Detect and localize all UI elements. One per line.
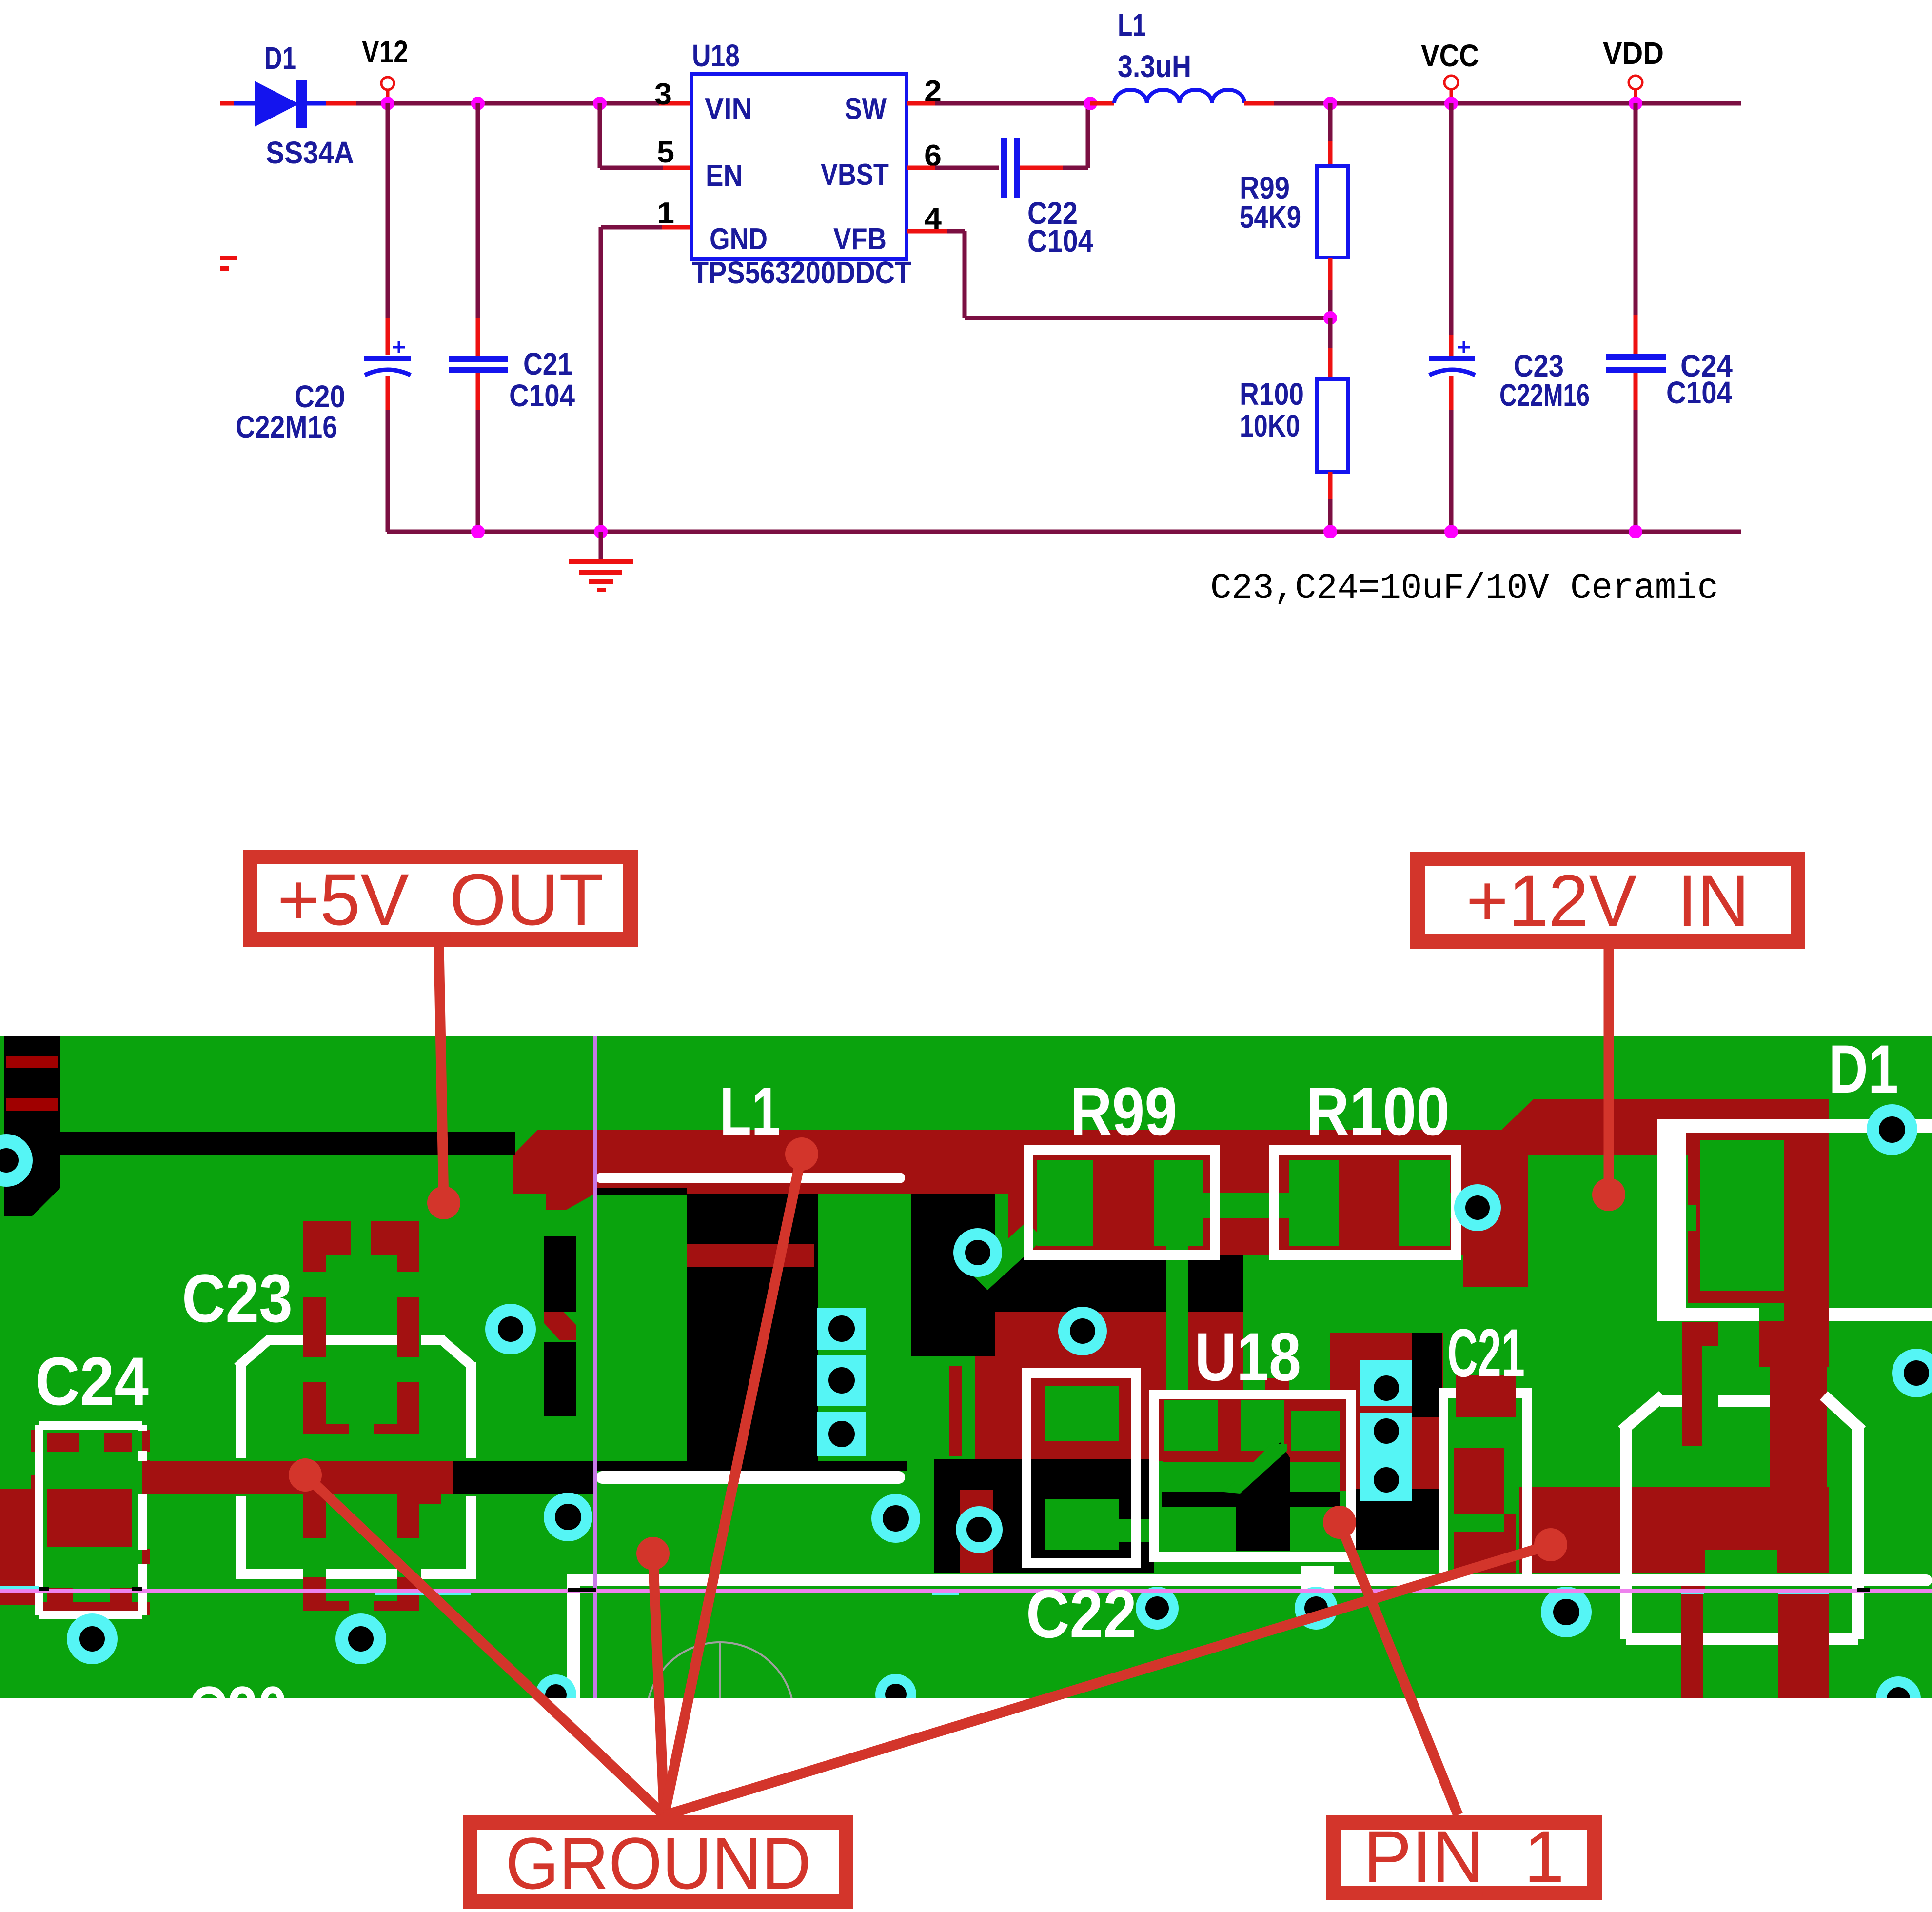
silkscreen U18 outline [1154, 1394, 1351, 1557]
junction rail GND [594, 525, 608, 538]
green notch in D1 ring [1688, 1205, 1696, 1231]
black region mid [687, 1194, 818, 1471]
annotation dot ground L1 [785, 1137, 818, 1171]
U18 red strip under pads [1164, 1451, 1340, 1462]
annotation line +12V_IN [1604, 949, 1614, 1195]
red diagonal stripe left [544, 1309, 576, 1340]
wire: V12 down to C20 [386, 103, 390, 318]
D1 interior green [1700, 1140, 1784, 1291]
silkscreen pin1 marker square [1301, 1566, 1334, 1590]
white mask below board [0, 1698, 1932, 1912]
svg-text:+12V_IN: +12V_IN [1466, 859, 1750, 941]
D1 anode lower pieces [1682, 1322, 1718, 1346]
C21 pad top [1456, 1375, 1516, 1417]
annotation lines GROUND [305, 1475, 664, 1815]
svg-text:C104: C104 [509, 378, 575, 413]
capacitor C22 [1001, 138, 1007, 198]
svg-text:+5V_OUT: +5V_OUT [277, 858, 604, 940]
wire: to R100 [1328, 318, 1333, 348]
svg-text:D1: D1 [1829, 1031, 1898, 1107]
white mask above board [0, 1029, 1932, 1036]
via right edge [1892, 1349, 1932, 1397]
capacitor C21 [449, 356, 508, 362]
annotation dot ground right [1534, 1528, 1567, 1561]
power node V12 [381, 77, 394, 90]
svg-text:SS34A: SS34A [266, 135, 354, 170]
black notch right of cyan strip [1412, 1333, 1442, 1417]
svg-text:TPS563200DDCT: TPS563200DDCT [692, 255, 911, 290]
black C22 zone [934, 1459, 1154, 1573]
svg-text:VIN: VIN [705, 92, 752, 126]
via row1 b [871, 1494, 920, 1543]
black trace strip [453, 1461, 596, 1494]
svg-text:R100: R100 [1306, 1073, 1450, 1150]
wire: C22 up to SW node [1020, 166, 1063, 170]
copper right of U18 [1330, 1333, 1443, 1491]
annotation dot +5V_OUT target [427, 1186, 460, 1219]
C23 pad left dashes [303, 1221, 351, 1255]
bottom pad stubs D1 [1681, 1584, 1705, 1590]
silkscreen C21 outline [1443, 1393, 1527, 1579]
svg-text:VCC: VCC [1421, 38, 1479, 73]
svg-text:C23: C23 [182, 1260, 293, 1336]
wire: drop to EN pin 5 [598, 103, 602, 168]
C22 pads [1045, 1386, 1119, 1441]
svg-text:C21: C21 [523, 346, 572, 381]
wire: C23 to bottom rail [1449, 376, 1454, 410]
via under R99 [1058, 1307, 1107, 1355]
wire: top rail from diode to pin3 [356, 101, 659, 106]
silkscreen C23 outline with chamfers [236, 1362, 246, 1458]
annotation dot ground plane [636, 1537, 670, 1570]
annotation box PIN_1 [1333, 1822, 1595, 1893]
wire: SW pin 2 stub [907, 101, 935, 106]
svg-text:GROUND: GROUND [506, 1822, 811, 1904]
junction pin3 branch [593, 97, 607, 110]
wire: pin3 stub [659, 101, 691, 106]
wire: top rail SW node [935, 101, 1092, 106]
via row1 c [956, 1506, 1003, 1553]
via near R99 diag [953, 1228, 1002, 1277]
wire: VBST pin 6 to C22 [907, 166, 935, 170]
annotation box +12V_IN [1418, 859, 1798, 941]
junction rail C24 [1629, 525, 1642, 538]
wire: C21 to bottom rail [476, 373, 480, 410]
PCB board green base [0, 1036, 1932, 1698]
black band from column [60, 1132, 515, 1155]
power node VCC [1444, 76, 1458, 89]
copper stripe under C22 [960, 1490, 993, 1573]
svg-text:C23,C24=10uF/10V Ceramic: C23,C24=10uF/10V Ceramic [1210, 568, 1718, 609]
via below C23 [335, 1613, 386, 1664]
wire: C20 to bottom rail [386, 376, 390, 410]
via under C22 a [1136, 1587, 1179, 1630]
green vertical trace from R99 [1166, 1246, 1188, 1408]
diode D1 SS34A [220, 101, 234, 106]
svg-text:3: 3 [654, 78, 672, 111]
svg-text:L1: L1 [720, 1073, 780, 1150]
wire: VDD down to C24 [1634, 103, 1638, 315]
power node VDD [1629, 76, 1642, 89]
silkscreen D1 upper white bar [1657, 1119, 1686, 1321]
via top right D1 [1867, 1104, 1917, 1155]
svg-text:VDD: VDD [1603, 36, 1664, 71]
stray red mark [220, 256, 237, 260]
annotation dot ground C23 [289, 1458, 322, 1492]
U18 body black [1162, 1492, 1290, 1507]
green notch in bottom band [1705, 1550, 1777, 1573]
via under C22 b [1295, 1587, 1338, 1630]
svg-text:U18: U18 [692, 38, 740, 73]
svg-text:PIN_1: PIN_1 [1363, 1815, 1564, 1897]
R99 pads [1037, 1160, 1093, 1246]
via bottom left a [535, 1674, 576, 1715]
via bottom left b [875, 1674, 916, 1715]
trace C24 to U18 [150, 1461, 453, 1494]
U18 diagonal green trace [1224, 1444, 1287, 1494]
svg-text:3.3uH: 3.3uH [1118, 49, 1191, 84]
junction feedback node [1323, 311, 1337, 325]
silkscreen L1 top line [596, 1173, 905, 1183]
red stripes in left black column [6, 1056, 58, 1068]
U18 interior red [1163, 1394, 1342, 1462]
copper region under C22/U18 [975, 1312, 1243, 1461]
svg-text:C22M16: C22M16 [1499, 378, 1590, 413]
silkscreen D1 upper top line [1657, 1119, 1932, 1133]
svg-text:5: 5 [657, 136, 674, 169]
junction rail C21 [471, 525, 485, 538]
black under resistors [995, 1255, 1243, 1312]
svg-text:VFB: VFB [833, 222, 887, 256]
svg-text:C21: C21 [1447, 1314, 1525, 1391]
silkscreen C24 outline [35, 1425, 43, 1615]
via green left [485, 1304, 536, 1354]
red column above U18 outline [1265, 1378, 1289, 1408]
wire: R99 bottom [1328, 258, 1333, 290]
svg-text:C24: C24 [35, 1343, 149, 1419]
silkscreen C22 outline [1026, 1373, 1136, 1563]
green connector R99-R100 [1203, 1193, 1289, 1218]
D1 anode ring bottom [1700, 1291, 1784, 1303]
resistor R99 54K9 [1317, 166, 1348, 258]
U18 pads bottom [1162, 1507, 1218, 1551]
junction rail C23 [1444, 525, 1458, 538]
svg-text:V12: V12 [362, 34, 408, 69]
svg-text:D1: D1 [264, 40, 296, 76]
wire: R100 to bottom rail [1328, 472, 1333, 499]
junction second node [471, 97, 485, 110]
cyan pad strip right [1360, 1360, 1412, 1406]
capacitor C23 [1429, 356, 1475, 361]
via in copper block [1454, 1184, 1501, 1231]
annotation line +5V_OUT [439, 947, 444, 1203]
svg-text:C104: C104 [1027, 223, 1093, 259]
silkscreen L1 bottom line [596, 1471, 905, 1484]
via below C21 [1541, 1587, 1592, 1637]
junction VDD [1629, 97, 1642, 110]
resistor R100 10K0 [1317, 379, 1348, 472]
black squares left [544, 1236, 576, 1312]
svg-text:VBST: VBST [821, 158, 889, 192]
wire trace: +12V band right with chamfer [1502, 1099, 1829, 1155]
silkscreen R99 outline [1028, 1150, 1215, 1255]
annotation dot +12V_IN target [1592, 1178, 1625, 1211]
junction R99 top node [1323, 97, 1337, 110]
green diagonal trace left [970, 1222, 1044, 1290]
junction V12 [381, 97, 394, 110]
svg-text:54K9: 54K9 [1240, 199, 1301, 235]
cyan hairline segments [0, 1586, 39, 1590]
C24 pad pieces [47, 1433, 79, 1452]
annotation box +5V_OUT [250, 857, 631, 939]
wire: VCC down to C23 [1449, 103, 1454, 335]
grey arc mounting outline [647, 1642, 794, 1790]
wire: VFB pin 4 to divider [907, 229, 947, 234]
wire trace: main +5V band left part [513, 1130, 1029, 1194]
wire: GND pin 1 net [601, 225, 662, 230]
svg-text:C22M16: C22M16 [236, 409, 337, 444]
ground symbol [599, 532, 603, 561]
black hairline segments [39, 1587, 49, 1591]
svg-text:GND: GND [710, 222, 768, 256]
annotation line PIN_1 [1340, 1522, 1458, 1815]
capacitor C20 [364, 356, 411, 361]
violet vertical grid line [593, 1036, 597, 1698]
svg-text:R100: R100 [1240, 377, 1304, 412]
silkscreen R100 outline [1274, 1150, 1456, 1255]
wire: C24 to bottom rail [1634, 373, 1638, 410]
C24 copper pour left edge [0, 1489, 40, 1605]
C21 pad bottom [1454, 1532, 1516, 1573]
big bottom copper band [1519, 1487, 1829, 1573]
trace stub below band [546, 1188, 593, 1210]
capacitor C24 [1606, 354, 1666, 360]
D1 anode ring vertical [1688, 1128, 1700, 1303]
magenta board line [0, 1589, 1932, 1593]
wire: branch to C21 [476, 103, 480, 318]
copper pour around R99 R100 [1008, 1130, 1502, 1255]
copper block left of D1 [1463, 1131, 1528, 1287]
U18 pads top [1164, 1400, 1218, 1451]
via left edge [0, 1134, 33, 1187]
via bottom right [1876, 1676, 1921, 1721]
inductor L1 [1090, 101, 1114, 106]
C21 pad mid [1454, 1448, 1504, 1514]
U18 mid green blocks [1162, 1462, 1236, 1492]
red strip in black region [687, 1244, 814, 1267]
svg-text:SW: SW [845, 92, 887, 126]
annotation box GROUND [470, 1823, 846, 1902]
D1 anode ring top [1700, 1128, 1784, 1140]
wire: bottom ground rail [387, 530, 1741, 534]
svg-text:L1: L1 [1118, 7, 1146, 42]
D1 cathode bar [1784, 1155, 1829, 1321]
silkscreen long bottom line [567, 1574, 1932, 1586]
black right of green column [911, 1194, 995, 1356]
junction VCC [1444, 97, 1458, 110]
black left column [4, 1036, 60, 1216]
via row1 a [544, 1493, 592, 1541]
wire: top rail L1 to VDD and beyond [1272, 101, 1741, 106]
R100 pads [1289, 1160, 1339, 1246]
svg-text:U18: U18 [1195, 1318, 1301, 1395]
svg-text:C22: C22 [1026, 1575, 1137, 1652]
black right of U18 [1351, 1489, 1443, 1550]
svg-text:R99: R99 [1070, 1073, 1177, 1150]
silkscreen D1 upper bottom line [1686, 1308, 1759, 1321]
svg-text:10K0: 10K0 [1240, 408, 1300, 443]
D1 cathode widening [1759, 1321, 1829, 1367]
C23 pad right dashes [371, 1221, 419, 1255]
junction rail R100 [1323, 525, 1337, 538]
cyan pad strip left [817, 1308, 866, 1350]
via below C24 [67, 1613, 118, 1664]
copper bar near SW pads [949, 1366, 962, 1456]
annotation dot PIN_1 target [1323, 1506, 1356, 1539]
svg-text:C104: C104 [1666, 375, 1732, 410]
op-amp U18 TPS563200DDCT box [691, 74, 907, 259]
wire: to R99 [1328, 103, 1333, 141]
black strip under band left [596, 1188, 687, 1195]
silkscreen D1 lower outline chamfered [1620, 1427, 1632, 1639]
green zone U18 text [1243, 1255, 1443, 1312]
svg-text:EN: EN [706, 159, 743, 193]
junction SW node [1084, 97, 1097, 110]
